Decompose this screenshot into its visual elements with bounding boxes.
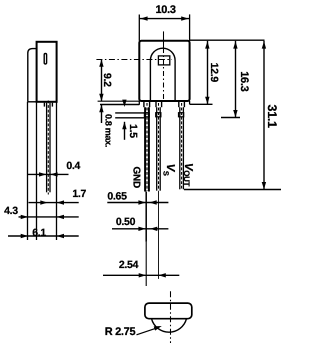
svg-text:4.3: 4.3 [4,205,18,217]
svg-text:0.8 max.: 0.8 max. [103,114,113,147]
svg-text:2.54: 2.54 [119,259,139,271]
svg-text:1.7: 1.7 [72,188,86,200]
svg-text:16.3: 16.3 [238,71,250,91]
svg-text:R 2.75: R 2.75 [105,326,136,338]
svg-text:0.50: 0.50 [116,216,136,228]
svg-text:0.65: 0.65 [107,191,127,203]
svg-text:12.9: 12.9 [208,63,220,83]
svg-text:6.1: 6.1 [32,227,46,239]
svg-text:0.4: 0.4 [66,160,80,172]
svg-text:GND: GND [131,167,142,188]
svg-text:9.2: 9.2 [101,73,113,87]
svg-text:31.1: 31.1 [265,105,279,128]
svg-text:10.3: 10.3 [155,4,175,16]
svg-text:1.5: 1.5 [127,124,139,138]
